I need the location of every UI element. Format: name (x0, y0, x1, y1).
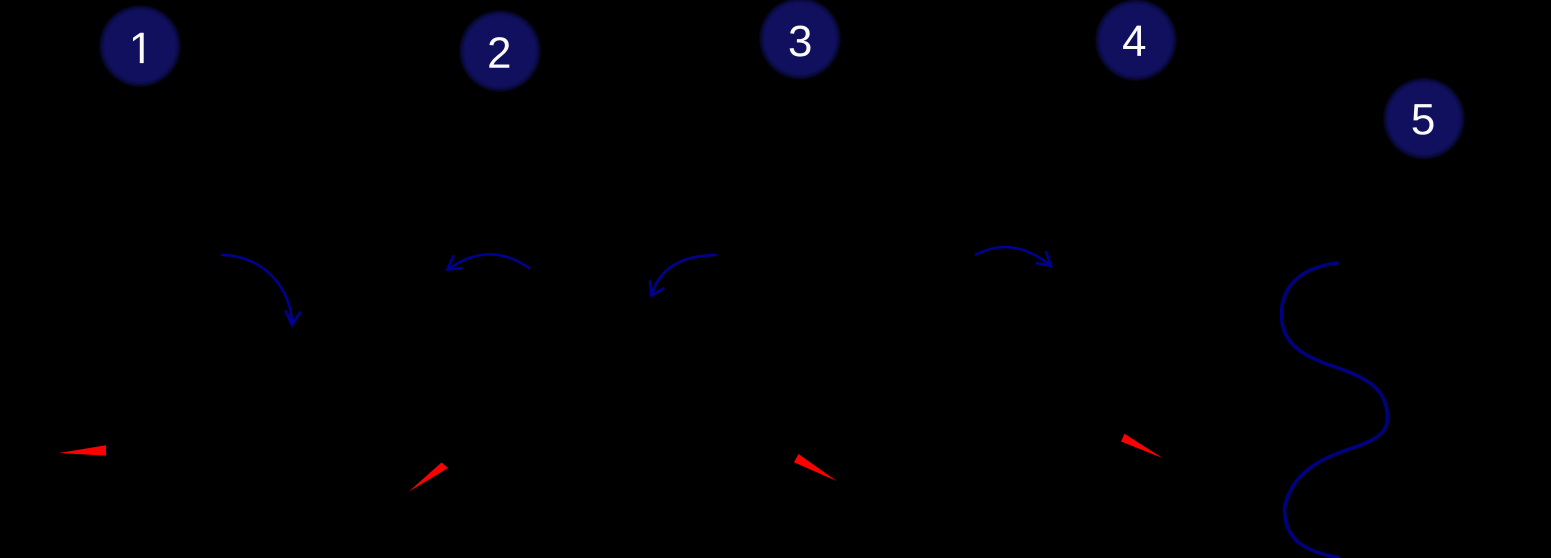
digit 3 (790, 26, 811, 57)
step badge 3 (759, 0, 841, 80)
red wedge bond 1 (59, 445, 106, 455)
digit 1 (133, 33, 144, 63)
curved arrow 2 (step 2) (448, 254, 530, 269)
polymer squiggle (step 5) (1282, 263, 1388, 558)
curved arrow 3 (step 3) (650, 255, 716, 296)
curved arrow 1 (step 1) (222, 255, 300, 325)
step badge 5 (1383, 78, 1465, 160)
red wedge bond 2 (409, 463, 448, 492)
step badge 4 (1095, 0, 1177, 81)
step badge 1 (99, 5, 181, 87)
digit 5 (1413, 104, 1434, 135)
digit 4 (1123, 26, 1145, 56)
red wedge bond 4 (1121, 434, 1163, 458)
digit 2 (489, 37, 509, 68)
red wedge bond 3 (794, 454, 837, 481)
step badge 2 (459, 10, 541, 92)
curved arrow 4 (step 4) (976, 247, 1051, 266)
